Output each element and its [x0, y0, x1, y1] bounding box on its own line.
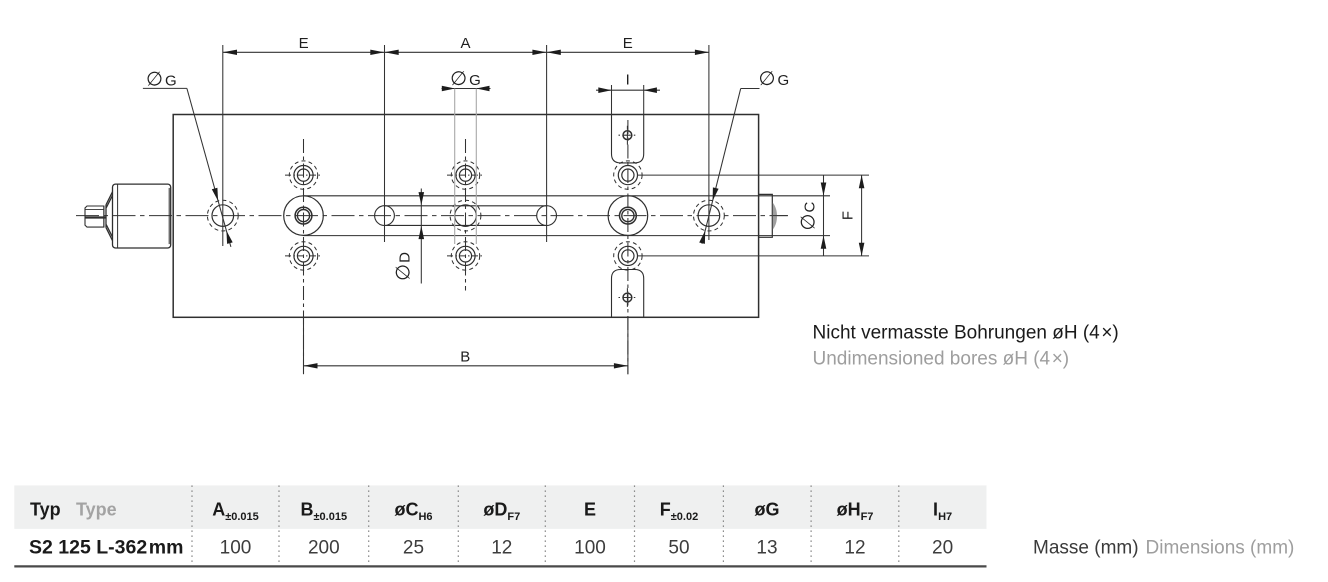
extension line E left — [222, 45, 224, 246]
bore oH bottom-left: pilot circle — [297, 250, 309, 262]
pin hole bottom vertical — [626, 288, 628, 307]
I extension line right — [643, 85, 645, 115]
svg-text:Typ: Typ — [30, 500, 61, 520]
table bottom border — [14, 565, 986, 567]
column centerline x=627.9 — [627, 120, 629, 374]
arrow I left (outside, pointing right) — [598, 87, 611, 93]
arrow B left — [304, 363, 318, 368]
bore top-middle: pilot circle — [459, 169, 471, 181]
table separator 5 — [544, 485, 546, 565]
arrow F top (pointing up) — [859, 175, 865, 188]
column centerline x=303.5 — [303, 139, 305, 374]
table separator 9 — [898, 485, 900, 565]
arrow B right — [614, 363, 628, 368]
stub centerline tail — [773, 215, 788, 217]
cross line pin hole top — [619, 134, 637, 136]
arrow oD top (pointing down) — [419, 192, 425, 205]
channel bore top tangent line — [304, 195, 831, 197]
table separator 7 — [722, 485, 724, 565]
svg-text:100: 100 — [574, 538, 606, 559]
bore oH top-right: pilot circle — [622, 169, 634, 181]
bore bottom-middle: bore circle — [456, 246, 475, 265]
top slot I (open to top edge) — [612, 115, 644, 163]
arrow A right at A/E — [532, 50, 546, 55]
hole oG right: solid circle — [698, 205, 720, 227]
B dimension line — [304, 365, 628, 367]
arrow E right at E/A — [370, 50, 384, 55]
knob left flange line — [117, 184, 119, 248]
B extension right — [627, 318, 629, 374]
svg-text:Dimensions (mm): Dimensions (mm) — [1146, 538, 1295, 559]
cross line pin hole bottom — [619, 297, 637, 299]
spindle shaft facet line thick — [85, 216, 105, 218]
svg-text:200: 200 — [308, 538, 340, 559]
cross line hole top-left — [285, 174, 322, 176]
arrow oC top (pointing down) — [821, 183, 827, 196]
channel bore bottom tangent line — [304, 235, 831, 237]
svg-text:13: 13 — [756, 538, 777, 559]
oG mid dimension line — [442, 88, 491, 90]
svg-text:E: E — [299, 35, 309, 52]
svg-text:F: F — [840, 211, 857, 220]
bore oH bottom-left: bore circle — [294, 246, 313, 265]
hole oG middle: dashed chamfer circle — [450, 200, 481, 231]
svg-text:∅D: ∅D — [393, 251, 415, 281]
body plate outline — [173, 115, 758, 318]
I dimension line — [596, 89, 660, 91]
counterbore oC left: thread ring inner — [297, 210, 309, 222]
arrow A left at E/A — [385, 50, 399, 55]
svg-text:E: E — [623, 35, 633, 52]
table separator 2 — [278, 485, 280, 565]
svg-text:20: 20 — [932, 538, 953, 559]
main horizontal centerline — [76, 215, 788, 217]
bore oH top-left: pilot circle — [297, 169, 309, 181]
svg-text:Nicht vermasste Bohrungen øH (: Nicht vermasste Bohrungen øH (4 ×) — [813, 323, 1119, 344]
svg-text:øG: øG — [755, 500, 780, 520]
arrow oG mid left (outside, pointing right) — [442, 86, 455, 92]
svg-text:A: A — [460, 35, 470, 52]
bore oH top-left: dashed circle — [289, 161, 317, 189]
bore top-middle: bore circle — [456, 166, 475, 185]
extension line A/E — [546, 45, 548, 242]
spindle shaft facet line thin — [85, 208, 104, 210]
counterbore oC left: large circle — [284, 196, 324, 236]
extension line E right — [708, 45, 710, 240]
top dimension line E A E — [223, 51, 709, 53]
arrow oG left leader lower (pointing up-left) — [226, 231, 232, 244]
knob right band line — [168, 188, 170, 244]
slot right end circle — [537, 206, 557, 226]
bore oH top-right: bore circle — [618, 166, 637, 185]
table header background — [14, 485, 986, 529]
hole oG left: dashed chamfer circle — [207, 200, 238, 231]
spindle shaft end line — [103, 206, 105, 227]
F extension line bottom — [637, 255, 869, 257]
extension line E/A — [384, 45, 386, 242]
hole oG middle: solid circle — [455, 205, 477, 227]
column centerline x=465.5 — [465, 139, 467, 291]
oG left leader line — [143, 87, 187, 89]
svg-text:B: B — [460, 349, 470, 366]
F dimension line — [861, 175, 863, 256]
I extension line left — [611, 85, 613, 115]
table separator 8 — [810, 485, 812, 565]
oG mid gray extension line right — [475, 89, 477, 245]
B extension left — [303, 318, 305, 374]
arrow oG left leader upper (pointing down-right) — [212, 188, 218, 201]
svg-text:Undimensioned bores øH (4 ×): Undimensioned bores øH (4 ×) — [813, 349, 1070, 370]
table separator 4 — [457, 485, 459, 565]
oC dimension line — [823, 175, 825, 256]
spindle shaft — [85, 206, 104, 227]
bore top-middle: dashed circle — [451, 161, 479, 189]
arrow oD bottom (pointing up) — [419, 226, 425, 239]
arrow E2 left at A/E — [547, 50, 561, 55]
knob body — [113, 184, 171, 248]
table separator 1 — [191, 485, 193, 565]
slot oD bottom edge — [385, 224, 547, 226]
arrow oG mid right (outside, pointing left) — [476, 86, 489, 92]
stub domed end (gray lens) — [773, 203, 777, 230]
svg-text:∅G: ∅G — [146, 68, 179, 90]
svg-text:Type: Type — [76, 500, 117, 520]
table separator 3 — [368, 485, 370, 565]
oG mid gray extension line left — [454, 89, 456, 245]
svg-text:∅G: ∅G — [450, 68, 483, 90]
F extension line top — [637, 174, 869, 176]
bore oH top-right: dashed circle — [614, 161, 642, 189]
svg-text:50: 50 — [668, 538, 689, 559]
arrow oC bottom (pointing up) — [821, 236, 827, 249]
bore oH top-left: bore circle — [294, 166, 313, 185]
bore oH bottom-right: pilot circle — [622, 250, 634, 262]
table separator 6 — [634, 485, 636, 565]
bore oH bottom-right: bore circle — [618, 246, 637, 265]
oG right leader line — [741, 88, 760, 90]
svg-text:Masse (mm): Masse (mm) — [1033, 538, 1139, 559]
bore oH bottom-right: dashed circle — [614, 242, 642, 270]
svg-text:S2 125 L-362 mm: S2 125 L-362 mm — [29, 537, 183, 559]
arrow oG right leader upper (pointing down-left) — [713, 187, 719, 200]
svg-text:∅G: ∅G — [759, 68, 792, 90]
oD dimension line — [420, 189, 422, 284]
slot left end circle — [375, 206, 395, 226]
svg-text:25: 25 — [403, 538, 424, 559]
bore bottom-middle: pilot circle — [459, 250, 471, 262]
svg-text:12: 12 — [844, 538, 865, 559]
svg-text:I: I — [626, 72, 630, 89]
svg-text:∅C: ∅C — [798, 201, 820, 231]
counterbore oC left: thread ring outer — [295, 207, 312, 224]
arrow oG right leader lower (pointing up-right) — [699, 231, 705, 244]
spindle taper cone — [106, 192, 113, 241]
shaft stub oC at right — [759, 194, 773, 237]
hole oG right: dashed chamfer circle — [694, 200, 725, 231]
svg-text:100: 100 — [220, 538, 252, 559]
cross line hole top-middle — [447, 174, 484, 176]
bottom slot pin hole — [623, 293, 632, 302]
slot oD top edge — [385, 205, 547, 207]
top slot pin hole — [623, 131, 632, 140]
bore oH bottom-left: dashed circle — [289, 242, 317, 270]
svg-text:E: E — [584, 500, 596, 520]
svg-text:12: 12 — [491, 538, 512, 559]
pin hole top vertical — [626, 126, 628, 145]
bottom slot I (open to bottom edge) — [612, 270, 644, 318]
cross line hole bottom-middle — [447, 255, 484, 257]
bore bottom-middle: dashed circle — [451, 242, 479, 270]
counterbore oC right: thread ring inner — [622, 210, 634, 222]
arrow E left — [223, 50, 237, 55]
counterbore oC right: thread ring outer — [620, 207, 637, 224]
arrow I right (outside, pointing left) — [644, 87, 657, 93]
counterbore oC right: large circle — [608, 196, 648, 236]
arrow E2 right — [695, 50, 709, 55]
arrow F bottom (pointing down) — [859, 243, 865, 256]
hole oG left: solid circle — [212, 205, 234, 227]
cross line hole bottom-left — [285, 255, 322, 257]
